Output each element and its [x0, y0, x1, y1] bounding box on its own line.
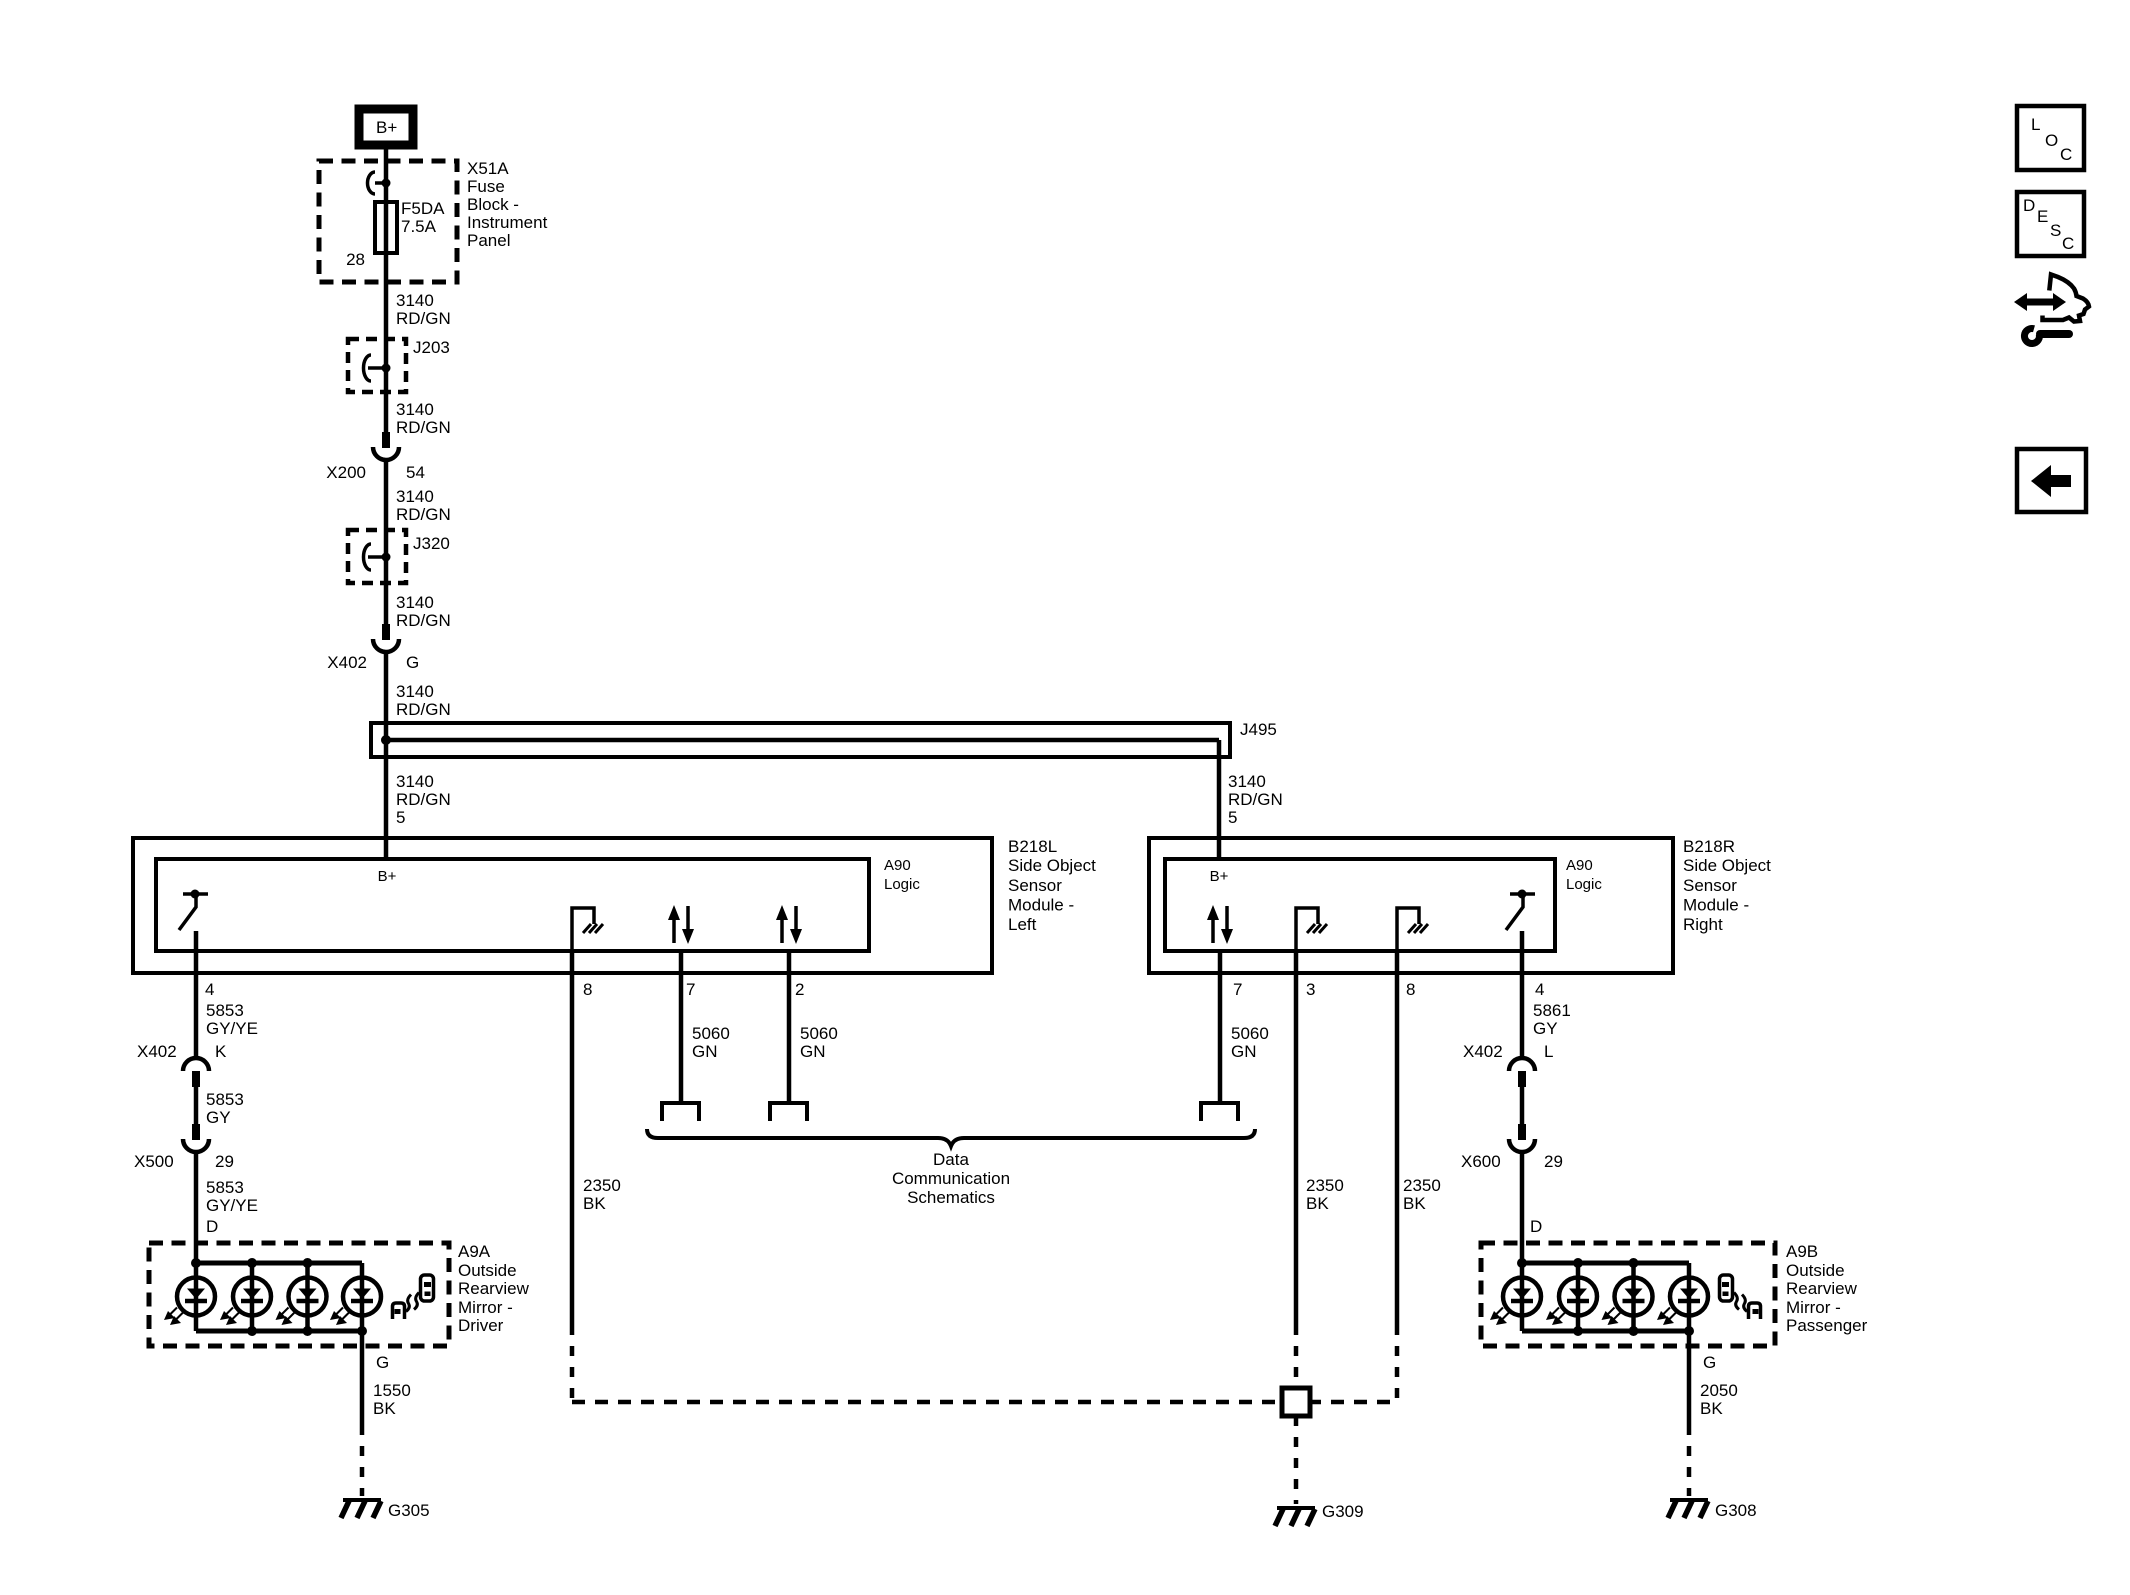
icon back button: [2017, 449, 2086, 512]
svg-text:K: K: [215, 1042, 227, 1061]
wire A9A pin G dashed: [360, 1425, 365, 1496]
svg-text:BK: BK: [1403, 1194, 1426, 1213]
svg-text:RD/GN: RD/GN: [396, 418, 451, 437]
svg-text:G305: G305: [388, 1501, 430, 1520]
wire label 5853 GY/YE (pin 4): [206, 1001, 258, 1038]
LED 1 A9B: [1490, 1263, 1541, 1331]
data arrows pair (right module pin 7): [1207, 905, 1233, 944]
wire 5861 GY between right connectors: [1520, 1087, 1525, 1124]
svg-text:Data: Data: [933, 1150, 969, 1169]
wire label 3140 RD/GN (below X200): [396, 487, 451, 524]
svg-text:O: O: [2045, 131, 2058, 150]
svg-text:5853: 5853: [206, 1178, 244, 1197]
svg-text:RD/GN: RD/GN: [1228, 790, 1283, 809]
label B218L Side Object Sensor Module - Left: [1008, 837, 1096, 934]
svg-text:5861: 5861: [1533, 1001, 1571, 1020]
icon LOC button: [2017, 106, 2084, 170]
svg-text:J203: J203: [413, 338, 450, 357]
mirror A9A bottom bus wire: [196, 1329, 362, 1334]
wire label 5060 GN (left pin 2): [800, 1024, 838, 1061]
pin label G and wire label 2050 BK (right): [1700, 1353, 1738, 1418]
svg-text:Fuse: Fuse: [467, 177, 505, 196]
svg-text:54: 54: [406, 463, 425, 482]
svg-text:Module -: Module -: [1683, 896, 1749, 915]
dashed ground bus wire: [572, 1400, 1397, 1405]
svg-text:Logic: Logic: [884, 876, 920, 893]
svg-text:3140: 3140: [396, 400, 434, 419]
label A90 Logic (right module): [1566, 857, 1602, 893]
wire X402 to J495 and down to B218L: [384, 661, 389, 859]
svg-text:5: 5: [396, 808, 405, 827]
svg-text:D: D: [206, 1217, 218, 1236]
svg-text:G308: G308: [1715, 1501, 1757, 1520]
wire J495 to B218R: [1217, 740, 1222, 859]
module B218R inner box A90: [1165, 859, 1555, 951]
connector X600 pin 29: [1461, 1124, 1563, 1171]
svg-text:1550: 1550: [373, 1381, 411, 1400]
mirror-sensor icon A9A: [393, 1275, 434, 1319]
svg-text:A9A: A9A: [458, 1242, 491, 1261]
svg-text:GY: GY: [1533, 1019, 1558, 1038]
icon DESC button: [2017, 192, 2084, 256]
svg-text:G: G: [1703, 1353, 1716, 1372]
label A90 Logic (left module): [884, 857, 920, 893]
svg-text:5: 5: [1228, 808, 1237, 827]
switch symbol (left module): [179, 890, 208, 931]
svg-text:8: 8: [583, 980, 592, 999]
svg-text:5060: 5060: [800, 1024, 838, 1043]
svg-text:28: 28: [346, 250, 365, 269]
svg-text:L: L: [1544, 1042, 1553, 1061]
wire A9B pin G dashed: [1687, 1425, 1692, 1496]
terminal under left pin 7: [662, 1103, 699, 1121]
fuse block X51A dashed box: [319, 161, 457, 282]
svg-text:D: D: [2023, 196, 2035, 215]
wire label 5060 GN (left pin 7): [692, 1024, 730, 1061]
svg-text:7.5A: 7.5A: [401, 217, 437, 236]
svg-text:Module -: Module -: [1008, 896, 1074, 915]
mirror-sensor icon A9B: [1720, 1275, 1761, 1319]
svg-text:Rearview: Rearview: [1786, 1279, 1858, 1298]
wire label 3140 RD/GN (below fuse block): [396, 291, 451, 328]
terminal under left pin 2: [770, 1103, 807, 1121]
inline junction square: [1282, 1388, 1310, 1416]
connector X402 pin L: [1463, 1042, 1553, 1087]
svg-text:29: 29: [1544, 1152, 1563, 1171]
svg-text:5060: 5060: [692, 1024, 730, 1043]
svg-text:RD/GN: RD/GN: [396, 611, 451, 630]
svg-text:Rearview: Rearview: [458, 1279, 530, 1298]
svg-text:Side Object: Side Object: [1008, 856, 1096, 875]
svg-text:X500: X500: [134, 1152, 174, 1171]
wire pin8 B218R 2350 BK dashed: [1395, 1325, 1400, 1402]
svg-text:J495: J495: [1240, 720, 1277, 739]
wire label 3140 RD/GN (below X402 G): [396, 682, 451, 719]
svg-text:5060: 5060: [1231, 1024, 1269, 1043]
LED 2 A9B: [1546, 1263, 1597, 1331]
wire pin3 B218R 2350 BK dashed to junction: [1294, 1325, 1299, 1388]
svg-text:2050: 2050: [1700, 1381, 1738, 1400]
wire pin3 B218R 2350 BK solid: [1294, 951, 1299, 1325]
label A9A Outside Rearview Mirror - Driver: [458, 1242, 530, 1335]
brace Data Communication Schematics: [647, 1129, 1255, 1207]
svg-text:X402: X402: [1463, 1042, 1503, 1061]
wire pin2 B218L 5060 GN: [787, 951, 792, 1103]
wire X500 to mirror A9A: [194, 1162, 199, 1263]
module B218R outer box: [1149, 838, 1673, 973]
pin label G and wire label 1550 BK (left): [373, 1353, 411, 1418]
wire label 5853 GY: [206, 1090, 244, 1127]
svg-text:3140: 3140: [396, 593, 434, 612]
svg-text:B+: B+: [376, 118, 397, 137]
module B218L outer box: [133, 838, 992, 973]
splice J203: [348, 338, 450, 392]
wire A9B pin G 2050 BK solid: [1687, 1331, 1692, 1425]
connector X500 pin 29: [134, 1124, 234, 1171]
LED 3 A9B: [1602, 1263, 1653, 1331]
svg-text:Mirror -: Mirror -: [458, 1298, 513, 1317]
svg-text:Side Object: Side Object: [1683, 856, 1771, 875]
node B+ power symbol: [359, 109, 413, 145]
wire label 3140 RD/GN 5 (left branch): [396, 772, 451, 827]
mirror A9B bottom bus wire: [1522, 1329, 1689, 1334]
wire X200 to J320: [384, 466, 389, 624]
wire X600 to mirror A9B: [1520, 1162, 1525, 1263]
svg-text:Instrument: Instrument: [467, 213, 548, 232]
svg-text:7: 7: [1233, 980, 1242, 999]
svg-text:G: G: [376, 1353, 389, 1372]
wire pin7 B218L 5060 GN: [679, 951, 684, 1103]
svg-text:X51A: X51A: [467, 159, 509, 178]
wire pin8 B218L 2350 BK dashed: [570, 1325, 575, 1402]
svg-text:5853: 5853: [206, 1001, 244, 1020]
connector X200 pin 54: [326, 432, 425, 482]
svg-text:Sensor: Sensor: [1008, 876, 1062, 895]
wire pin8 B218R 2350 BK solid: [1395, 951, 1400, 1325]
svg-text:BK: BK: [1700, 1399, 1723, 1418]
terminal under right pin 7: [1201, 1103, 1238, 1121]
svg-text:Panel: Panel: [467, 231, 510, 250]
wire pin4 B218L to X402 K: [194, 931, 199, 1058]
pin numbers below B218L: [205, 980, 804, 999]
svg-text:GY: GY: [206, 1108, 231, 1127]
svg-text:Passenger: Passenger: [1786, 1316, 1868, 1335]
ground symbol 2 inside B218R: [1397, 908, 1428, 951]
svg-text:B+: B+: [1210, 868, 1229, 885]
switch symbol (right module): [1506, 890, 1535, 931]
svg-text:BK: BK: [1306, 1194, 1329, 1213]
svg-text:3: 3: [1306, 980, 1315, 999]
svg-text:3140: 3140: [396, 487, 434, 506]
LED 3 A9A: [276, 1263, 327, 1331]
wire label 3140 RD/GN (below J203): [396, 400, 451, 437]
label B218R Side Object Sensor Module - Right: [1683, 837, 1771, 934]
svg-text:A90: A90: [884, 857, 911, 874]
wire junction to G309 dashed: [1294, 1416, 1299, 1504]
connector X402 pin K: [137, 1042, 227, 1087]
svg-text:D: D: [1530, 1217, 1542, 1236]
svg-text:7: 7: [686, 980, 695, 999]
svg-text:RD/GN: RD/GN: [396, 309, 451, 328]
svg-text:2: 2: [795, 980, 804, 999]
wire label 2350 BK (middle): [1306, 1176, 1344, 1213]
svg-text:BK: BK: [373, 1399, 396, 1418]
svg-text:X402: X402: [137, 1042, 177, 1061]
LED 1 A9A: [164, 1263, 215, 1331]
svg-text:GN: GN: [1231, 1042, 1257, 1061]
svg-text:Outside: Outside: [1786, 1261, 1845, 1280]
svg-text:L: L: [2031, 115, 2040, 134]
mirror A9A top bus wire: [196, 1261, 362, 1266]
svg-text:F5DA: F5DA: [401, 199, 445, 218]
LED 2 A9A: [220, 1263, 271, 1331]
splice J495 bus: [371, 720, 1277, 757]
svg-text:J320: J320: [413, 534, 450, 553]
junction dots A9A: [191, 1258, 367, 1336]
svg-text:E: E: [2037, 207, 2048, 226]
svg-text:4: 4: [205, 980, 214, 999]
ground symbol inside B218L: [572, 908, 603, 951]
svg-text:X402: X402: [327, 653, 367, 672]
wire label 5853 GY/YE D: [206, 1178, 258, 1236]
LED 4 A9B: [1657, 1263, 1708, 1331]
ground G305: [341, 1500, 430, 1520]
wire label 2350 BK (right): [1403, 1176, 1441, 1213]
svg-text:3140: 3140: [396, 291, 434, 310]
svg-text:RD/GN: RD/GN: [396, 700, 451, 719]
wire pin7 B218R 5060 GN: [1218, 951, 1223, 1103]
mirror A9B top bus wire: [1522, 1261, 1689, 1266]
svg-text:Sensor: Sensor: [1683, 876, 1737, 895]
svg-text:B+: B+: [378, 868, 397, 885]
svg-text:G: G: [406, 653, 419, 672]
junction dots A9B: [1517, 1258, 1694, 1336]
wire label 2350 BK (left): [583, 1176, 621, 1213]
svg-text:B218R: B218R: [1683, 837, 1735, 856]
label A9B Outside Rearview Mirror - Passenger: [1786, 1242, 1868, 1335]
svg-text:S: S: [2050, 221, 2061, 240]
svg-text:3140: 3140: [396, 682, 434, 701]
wire 5853 GY between connectors: [194, 1087, 199, 1124]
ground G308: [1668, 1500, 1757, 1520]
splice J320: [348, 530, 450, 583]
wire B+ feed down main run: [384, 147, 389, 432]
svg-text:29: 29: [215, 1152, 234, 1171]
connector X402 pin G: [327, 624, 419, 672]
svg-text:Left: Left: [1008, 915, 1037, 934]
svg-text:Mirror -: Mirror -: [1786, 1298, 1841, 1317]
mirror A9A dashed box: [149, 1243, 449, 1346]
svg-text:RD/GN: RD/GN: [396, 505, 451, 524]
ground G309: [1275, 1502, 1364, 1526]
svg-text:3140: 3140: [396, 772, 434, 791]
svg-text:Block -: Block -: [467, 195, 519, 214]
ground symbol 1 inside B218R: [1296, 908, 1327, 951]
LED 4 A9A: [330, 1263, 381, 1331]
svg-text:C: C: [2062, 234, 2074, 253]
svg-text:Outside: Outside: [458, 1261, 517, 1280]
svg-text:A9B: A9B: [1786, 1242, 1818, 1261]
module B218L inner box A90: [156, 859, 869, 951]
svg-text:5853: 5853: [206, 1090, 244, 1109]
wire label 3140 RD/GN 5 (right branch): [1228, 772, 1283, 827]
svg-text:A90: A90: [1566, 857, 1593, 874]
svg-text:Right: Right: [1683, 915, 1723, 934]
svg-text:GY/YE: GY/YE: [206, 1019, 258, 1038]
wire label 3140 RD/GN (below J320): [396, 593, 451, 630]
svg-text:GN: GN: [692, 1042, 718, 1061]
wire pin4 B218R to X402 L: [1520, 931, 1525, 1058]
svg-text:Communication: Communication: [892, 1169, 1010, 1188]
wire label 5060 GN (right pin 7): [1231, 1024, 1269, 1061]
svg-text:Logic: Logic: [1566, 876, 1602, 893]
svg-text:C: C: [2060, 145, 2072, 164]
data arrows pair 1 (left module pin 7): [668, 905, 694, 944]
svg-text:GY/YE: GY/YE: [206, 1196, 258, 1215]
svg-text:Driver: Driver: [458, 1316, 504, 1335]
svg-text:BK: BK: [583, 1194, 606, 1213]
wire pin8 B218L 2350 BK solid: [570, 951, 575, 1325]
fuse block pin terminal: [368, 172, 391, 194]
svg-text:2350: 2350: [583, 1176, 621, 1195]
icon repair instructions (arrow, panel outline, wrench): [2014, 275, 2089, 344]
mirror A9B dashed box: [1481, 1243, 1775, 1346]
svg-text:8: 8: [1406, 980, 1415, 999]
data arrows pair 2 (left module pin 2): [776, 905, 802, 944]
label X51A Fuse Block - Instrument Panel: [467, 159, 548, 250]
svg-text:3140: 3140: [1228, 772, 1266, 791]
svg-text:4: 4: [1535, 980, 1544, 999]
pin numbers below B218R: [1233, 980, 1544, 999]
svg-text:B218L: B218L: [1008, 837, 1057, 856]
wire label 5861 GY (right pin 4): [1533, 1001, 1571, 1038]
svg-text:X600: X600: [1461, 1152, 1501, 1171]
svg-text:2350: 2350: [1403, 1176, 1441, 1195]
svg-text:X200: X200: [326, 463, 366, 482]
svg-text:2350: 2350: [1306, 1176, 1344, 1195]
svg-text:Schematics: Schematics: [907, 1188, 995, 1207]
svg-text:G309: G309: [1322, 1502, 1364, 1521]
svg-text:RD/GN: RD/GN: [396, 790, 451, 809]
svg-text:GN: GN: [800, 1042, 826, 1061]
wire A9A pin G 1550 BK solid: [360, 1331, 365, 1425]
fuse F5DA 7.5A: [375, 199, 445, 253]
